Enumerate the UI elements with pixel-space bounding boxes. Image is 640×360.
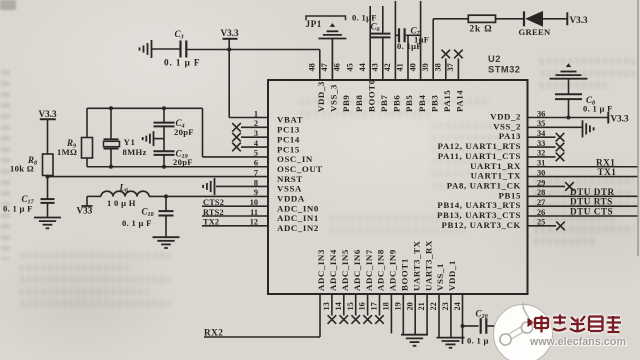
pin 29 stub no-connect <box>528 185 566 187</box>
ground for C3 <box>151 40 153 58</box>
pin 15 stub no-connect <box>343 294 345 316</box>
ground for pins 19-22 <box>401 334 428 336</box>
capacitor C3 <box>179 41 181 58</box>
wire pin 21 down <box>414 294 416 335</box>
no-connect X pin 29 <box>565 182 574 191</box>
capacitor C6 <box>382 37 384 80</box>
wire RTS2 to pin 11 <box>202 215 268 217</box>
ground VSSA pin 8 <box>214 178 216 195</box>
no-connect X pin 18 <box>375 315 384 324</box>
no-connect X pin 37 <box>454 50 463 59</box>
ground VSS_2 pin 35 <box>582 120 584 137</box>
pin 32 stub no-connect <box>528 156 556 158</box>
power V3.3 top-left <box>223 38 238 40</box>
pin 34 stub no-connect <box>528 136 556 138</box>
power V33 <box>82 205 93 207</box>
pin 8 VSSA stub <box>216 185 268 187</box>
pin 17 stub no-connect <box>367 294 369 316</box>
pin 33 stub no-connect <box>528 146 556 148</box>
connector JP1 <box>306 16 346 20</box>
junction dot VDDA/C18 <box>164 194 168 198</box>
wire pin 20 down <box>402 294 404 335</box>
wire pin 44 column up <box>369 6 371 80</box>
watermark logo plug icon <box>500 303 535 346</box>
wire pin 39 up to LED resistor <box>432 19 434 80</box>
page scan edge line <box>637 0 639 256</box>
ground for C4/C19 midpoint <box>153 131 155 146</box>
wire CTS2 to pin 10 <box>202 205 268 207</box>
no-connect X pin 32 <box>556 153 565 162</box>
no-connect X pin 34 <box>556 133 565 142</box>
no-connect X pin 14 <box>328 315 337 324</box>
no-connect X pin 16 <box>351 315 360 324</box>
no-connect X pin 2 <box>232 123 241 132</box>
wire cap midpoint to ground <box>154 138 165 140</box>
capacitor C17 <box>41 198 55 200</box>
wire pin 41 column up <box>407 36 409 81</box>
junction dot C20 <box>461 324 465 328</box>
watermark title glyphs (white glow under) <box>535 315 621 334</box>
wire TX2 to pin 12 <box>202 225 268 227</box>
wire DTU CTS from pin 26 <box>528 215 638 217</box>
ground for C18 <box>153 236 180 238</box>
wire NRST: R8 to pin 7 <box>48 176 269 178</box>
wire TX1 from pin 30 <box>528 176 638 178</box>
wire DTU RTS from pin 27 <box>528 205 638 207</box>
LED GREEN diode <box>523 11 525 26</box>
wire pin 23 down <box>438 294 440 337</box>
capacitor C7 <box>395 34 398 36</box>
capacitor C19 <box>154 150 175 152</box>
pin 4 stub no-connect <box>241 146 268 148</box>
inductor L6 <box>101 191 113 196</box>
no-connect X pin 3 <box>232 133 241 142</box>
no-connect X pin 38 <box>442 50 451 59</box>
pin 3 stub no-connect <box>241 136 268 138</box>
wire VDD_1 branch to C20 <box>462 294 464 344</box>
no-connect X pin 4 <box>232 143 241 152</box>
capacitor C4 <box>163 108 165 122</box>
no-connect X pin 17 <box>363 315 372 324</box>
wire pin 19 down <box>390 294 392 334</box>
IC U2 STM32 body <box>268 80 528 294</box>
ground for C17 <box>34 217 61 219</box>
ground above C8 <box>550 78 588 80</box>
capacitor C18 <box>165 196 167 210</box>
power V3.3 right <box>607 112 609 124</box>
capacitor C8 <box>555 93 582 95</box>
wire pin 24 down <box>450 294 452 337</box>
watermark logo circle <box>493 304 553 360</box>
wire DTU DTR from pin 28 <box>528 195 638 197</box>
bleed-through ghost text blocks <box>540 58 636 94</box>
pin 25 stub no-connect <box>528 225 557 227</box>
junction dots crystal rails <box>109 106 113 110</box>
wire OSC_IN net: pin 5 to top rail <box>203 156 269 158</box>
power V3.3 top-right <box>566 12 568 25</box>
wire resistor to LED <box>496 18 525 20</box>
crystal Y1 <box>110 108 112 139</box>
wire ground to C3 <box>152 48 180 50</box>
wire OSC_OUT net: pin 6 bottom rail <box>87 166 268 168</box>
ground above pin 47 VSS_3 <box>318 38 346 40</box>
wire pin 42 column up <box>394 1 396 80</box>
junction dot C8 <box>567 116 571 120</box>
capacitor C20 <box>480 318 482 334</box>
resistor 2k ohm <box>468 15 495 22</box>
pin 14 stub no-connect <box>331 294 333 316</box>
pin 2 stub no-connect <box>241 126 268 128</box>
wire LED to V3.3 <box>543 18 567 20</box>
wire inductor left to V33 <box>87 195 101 197</box>
pin 38 stub no-connect <box>445 59 447 81</box>
junction dot NRST <box>46 175 50 179</box>
wire V3.3 node down to pin 1 VBAT <box>228 50 230 118</box>
pin 16 stub no-connect <box>355 294 357 316</box>
wire pin 22 down <box>426 294 428 335</box>
no-connect X pin 25 <box>556 222 565 231</box>
resistor R8 <box>43 154 54 176</box>
watermark title 电子发烧友 (drawn glyph blocks) <box>535 315 621 334</box>
wire VDDA: inductor to pin 9 <box>149 195 268 197</box>
pin 37 stub no-connect <box>457 59 459 81</box>
wire VSS_2 pin 35 to ground <box>528 126 583 128</box>
ground for pins 23-24 <box>437 337 465 339</box>
watermark url www.elecfans.com <box>530 336 640 348</box>
node junction C3/V3.3 <box>227 48 231 52</box>
resistor R9 <box>86 108 88 137</box>
wire RX1 from pin 31 <box>528 166 638 168</box>
no-connect X pin 33 <box>556 143 565 152</box>
wire pin 40 column up <box>420 1 422 80</box>
wire VDD_2 pin 36 to V3.3 <box>528 117 609 119</box>
pin 18 stub no-connect <box>379 294 381 316</box>
no-connect X pin 15 <box>340 315 349 324</box>
wire C3 to V3.3 node to pin 48 <box>186 49 319 51</box>
wire RX2 to pin 13 <box>319 294 321 337</box>
wire R8 node down to C17 <box>47 177 49 199</box>
